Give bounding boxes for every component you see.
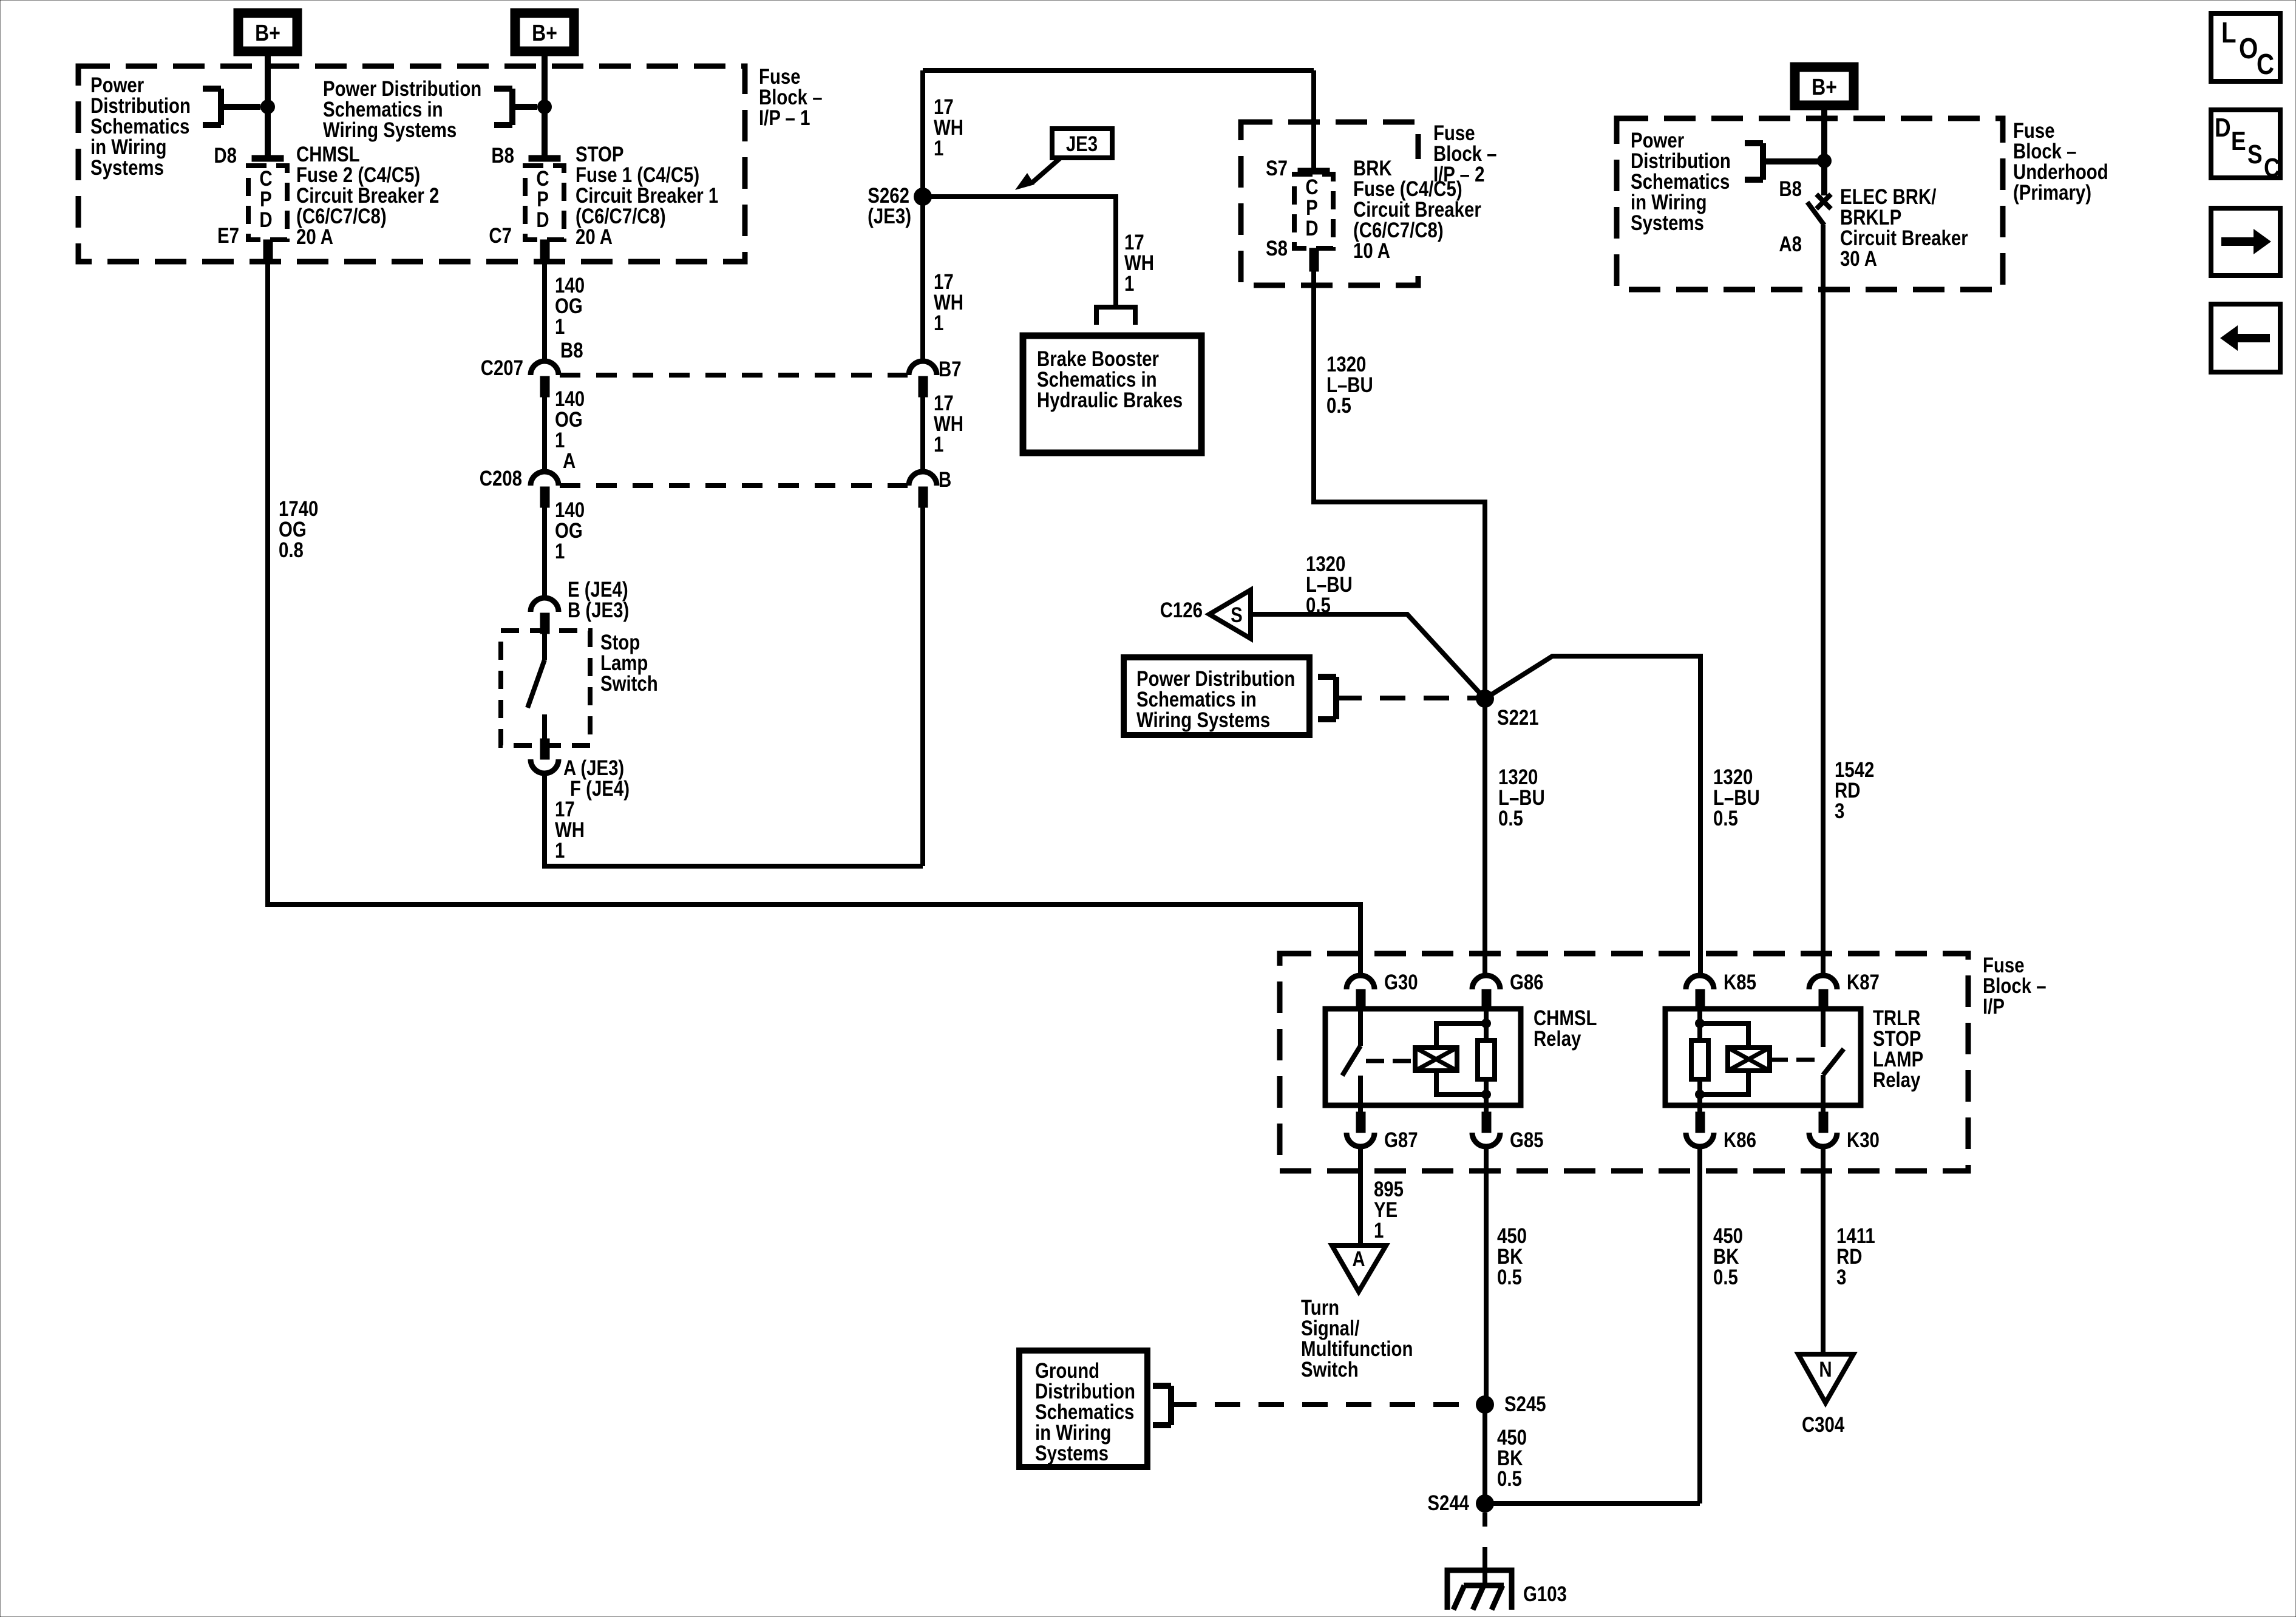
- relay CHMSL actuation dashes: [1366, 1059, 1415, 1063]
- svg-text:(JE3): (JE3): [868, 205, 911, 228]
- svg-text:B: B: [939, 468, 951, 492]
- svg-text:Relay: Relay: [1533, 1027, 1581, 1051]
- fuse block I/P-1 dashed box: [78, 66, 745, 262]
- connector G86 (arc and tick): [1472, 975, 1500, 989]
- relay TRLR coil junction dots: [1695, 1019, 1705, 1028]
- svg-text:D: D: [259, 208, 272, 232]
- junction dot B8 feed: [537, 100, 552, 114]
- svg-text:Systems: Systems: [1631, 211, 1704, 235]
- relay TRLR resistor: [1697, 1008, 1702, 1040]
- svg-text:1: 1: [934, 311, 943, 335]
- reference box Power Distribution Schematics in Wiring Systems (S221): [1124, 657, 1309, 735]
- callout box JE3: [1052, 129, 1112, 158]
- splice S221 dot: [1476, 690, 1494, 708]
- svg-text:S8: S8: [1266, 237, 1288, 260]
- svg-text:1: 1: [1374, 1219, 1384, 1242]
- svg-text:I/P – 1: I/P – 1: [759, 106, 810, 130]
- relay TRLR coil: [1728, 1048, 1770, 1071]
- fuse BRK CPD symbol: [1294, 174, 1333, 248]
- reference box Ground Distribution Schematics in Wiring Systems: [1019, 1351, 1147, 1467]
- svg-text:L: L: [2221, 17, 2237, 49]
- top horizontal wire S262 to BRK fuse: [923, 68, 1314, 73]
- junction dot underhood feed: [1817, 154, 1832, 168]
- wire 140 OG segment C208 to stop lamp switch: [542, 507, 547, 598]
- connector at stop lamp switch input: [531, 598, 559, 612]
- stop lamp switch contacts and blade: [542, 634, 547, 660]
- wire B+3 to ELEC BRK breaker: [1821, 109, 1827, 195]
- wire BRK fuse to S221: [1314, 271, 1485, 699]
- svg-text:S7: S7: [1266, 157, 1288, 180]
- relay CHMSL switch: [1358, 1008, 1363, 1046]
- wire B+2 down to fuse B8: [542, 56, 548, 158]
- off-page triangle N: [1798, 1354, 1853, 1403]
- svg-text:1: 1: [555, 540, 565, 563]
- svg-text:K87: K87: [1847, 971, 1880, 994]
- svg-text:10 A: 10 A: [1353, 239, 1390, 263]
- svg-text:B+: B+: [1812, 74, 1837, 100]
- svg-text:0.5: 0.5: [1306, 594, 1331, 617]
- svg-text:1: 1: [555, 315, 565, 339]
- svg-text:0.5: 0.5: [1713, 807, 1738, 830]
- bracket connector (underhood ref note): [1760, 143, 1766, 180]
- wire 140 OG segment C207 to C208: [542, 397, 547, 472]
- pin tick S7: [1298, 168, 1330, 174]
- svg-text:C207: C207: [481, 356, 523, 380]
- terminal tick S8: [1309, 248, 1319, 271]
- svg-text:B8: B8: [1779, 177, 1802, 201]
- svg-text:(Primary): (Primary): [2013, 181, 2091, 205]
- svg-text:Systems: Systems: [90, 156, 164, 180]
- connector G85 (tick and arc): [1482, 1112, 1491, 1133]
- splice S244 dot: [1476, 1494, 1494, 1513]
- svg-text:B+: B+: [255, 20, 280, 46]
- svg-text:A8: A8: [1779, 232, 1802, 256]
- svg-text:D: D: [2215, 112, 2231, 143]
- svg-text:C7: C7: [489, 224, 512, 248]
- wire B+1 down to fuse D8: [265, 56, 271, 158]
- relay CHMSL coil: [1415, 1048, 1457, 1071]
- svg-text:0.5: 0.5: [1498, 807, 1523, 830]
- connector G87 (tick and arc): [1356, 1112, 1365, 1133]
- relay TRLR switch: [1821, 1008, 1826, 1047]
- svg-text:K85: K85: [1724, 971, 1756, 994]
- bracket connector (CHMSL ref note): [218, 89, 224, 125]
- fuse block I/P dashed box (relays): [1280, 954, 1968, 1171]
- wire S245 to S244: [1483, 1405, 1487, 1503]
- svg-text:Switch: Switch: [1301, 1358, 1359, 1381]
- svg-text:Wiring Systems: Wiring Systems: [323, 118, 457, 142]
- splice S245 dot: [1476, 1395, 1494, 1414]
- svg-text:G87: G87: [1384, 1128, 1418, 1152]
- svg-text:D8: D8: [214, 144, 237, 168]
- fuse STOP CPD symbol: [525, 166, 564, 240]
- svg-text:20 A: 20 A: [576, 225, 613, 249]
- svg-text:C126: C126: [1160, 598, 1203, 622]
- terminal tick E7: [263, 240, 273, 263]
- svg-text:Relay: Relay: [1873, 1068, 1920, 1092]
- stop lamp switch dashed box: [501, 631, 590, 745]
- connector C126 triangle S: [1209, 590, 1251, 639]
- dashed pair line C208-B: [560, 483, 908, 488]
- svg-text:Hydraulic Brakes: Hydraulic Brakes: [1037, 388, 1183, 412]
- terminal tick C7: [540, 240, 549, 263]
- connector K87 (arc and tick): [1809, 975, 1837, 989]
- svg-text:S221: S221: [1497, 706, 1539, 730]
- reference box Brake Booster Schematics in Hydraulic Brakes: [1023, 336, 1201, 453]
- relay CHMSL resistor: [1484, 1008, 1489, 1040]
- connector C208 (arc and tick): [531, 472, 559, 486]
- svg-text:20 A: 20 A: [296, 225, 333, 249]
- svg-text:Wiring Systems: Wiring Systems: [1136, 708, 1270, 732]
- connector half-box to brake booster: [1096, 307, 1135, 325]
- relay CHMSL box: [1325, 1009, 1521, 1105]
- power symbol B+ feed 3 (underhood): [1790, 63, 1858, 110]
- svg-text:N: N: [1819, 1358, 1832, 1381]
- relay CHMSL coil junction dots: [1481, 1019, 1491, 1028]
- fuse block I/P-2 dashed box: [1241, 122, 1418, 285]
- svg-text:JE3: JE3: [1066, 132, 1098, 156]
- wire 17 WH from switch to S262 leg: [545, 773, 923, 866]
- connector K30 (tick and arc): [1819, 1112, 1828, 1133]
- white backing for BRK label: [1353, 159, 1425, 262]
- connector G30 (arc and tick): [1347, 975, 1374, 989]
- relay CHMSL coil links: [1436, 1023, 1486, 1048]
- svg-text:C: C: [2257, 49, 2274, 81]
- svg-text:0.5: 0.5: [1497, 1266, 1522, 1289]
- svg-text:1: 1: [934, 137, 943, 160]
- bracket connector (STOP ref note): [509, 89, 515, 125]
- wire G87 to turn signal switch: [1358, 1147, 1363, 1246]
- legend box arrow left: [2211, 304, 2280, 372]
- wire S221 down to CHMSL relay G86: [1483, 699, 1487, 975]
- svg-text:S244: S244: [1427, 1491, 1469, 1515]
- svg-text:G103: G103: [1523, 1582, 1567, 1606]
- svg-text:A: A: [1352, 1247, 1365, 1271]
- svg-text:G30: G30: [1384, 971, 1418, 994]
- svg-text:0.5: 0.5: [1326, 394, 1351, 418]
- svg-text:1: 1: [1124, 272, 1134, 296]
- svg-text:S: S: [2247, 139, 2263, 169]
- wire G85 to S245: [1484, 1147, 1489, 1405]
- svg-text:I/P: I/P: [1983, 995, 2005, 1019]
- breaker contact X mark: [1816, 194, 1831, 209]
- svg-text:E7: E7: [217, 224, 239, 248]
- wire K30 to trailer connector: [1821, 1147, 1826, 1354]
- legend box LOC: [2211, 13, 2280, 81]
- dashed pair line C207-B7: [560, 373, 908, 378]
- legend box DESC: [2211, 110, 2280, 178]
- svg-text:B+: B+: [532, 20, 557, 46]
- svg-text:30 A: 30 A: [1840, 247, 1877, 271]
- wire K86 to S244: [1697, 1147, 1702, 1503]
- arrow JE3 to S262 wire: [1032, 158, 1061, 183]
- fuse block underhood dashed box: [1617, 118, 2003, 290]
- connector C207 (arc and tick): [531, 361, 559, 375]
- pin tick D8: [252, 155, 284, 161]
- svg-text:B (JE3): B (JE3): [568, 598, 629, 622]
- wire ELEC BRK to K87: [1821, 225, 1826, 975]
- branch wire S262 to brake booster: [923, 197, 1116, 305]
- wire S262 segment B7 to B: [920, 397, 925, 472]
- svg-text:1: 1: [555, 839, 565, 863]
- svg-text:K30: K30: [1847, 1128, 1880, 1152]
- svg-text:C304: C304: [1802, 1413, 1844, 1437]
- svg-text:S: S: [1231, 603, 1243, 627]
- svg-text:E: E: [2231, 126, 2246, 156]
- splice S262 dot: [914, 188, 932, 206]
- wire CHMSL fuse E7 to relay G30: [268, 263, 1360, 975]
- relay TRLR coil links: [1700, 1023, 1748, 1048]
- svg-text:0.8: 0.8: [279, 538, 304, 562]
- svg-text:S245: S245: [1504, 1392, 1546, 1416]
- power symbol B+ feed 2 (STOP): [511, 8, 579, 56]
- svg-text:G86: G86: [1510, 971, 1544, 994]
- svg-text:B8: B8: [560, 339, 583, 362]
- wire S244 to ground G103: [1483, 1513, 1487, 1527]
- svg-text:Systems: Systems: [1035, 1442, 1109, 1465]
- wire S262 vertical: [920, 70, 925, 361]
- svg-text:1: 1: [934, 433, 943, 456]
- wire C126 to S221: [1251, 614, 1485, 699]
- bracket connector (ground ref): [1168, 1386, 1174, 1425]
- breaker blade: [1807, 202, 1824, 225]
- svg-text:G85: G85: [1510, 1128, 1544, 1152]
- relay TRLR actuation dashes: [1770, 1058, 1819, 1062]
- svg-text:C208: C208: [480, 467, 522, 490]
- svg-text:B7: B7: [939, 358, 962, 381]
- relay TRLR box: [1665, 1009, 1861, 1105]
- connector B7 (arc and tick): [909, 361, 937, 375]
- svg-text:A: A: [563, 449, 576, 473]
- junction dot D8 feed: [260, 100, 275, 114]
- svg-text:3: 3: [1836, 1266, 1846, 1289]
- svg-text:D: D: [1305, 217, 1318, 240]
- svg-text:F (JE4): F (JE4): [570, 777, 630, 801]
- wire 140 OG segment C7 to C207: [542, 263, 547, 361]
- ground symbol G103: [1447, 1570, 1512, 1610]
- power symbol B+ feed 1 (CHMSL): [234, 8, 302, 56]
- svg-text:B8: B8: [491, 144, 514, 168]
- wire S262 segment below B: [920, 507, 925, 866]
- wire top to BRK fuse S7: [1311, 70, 1316, 171]
- connector at stop lamp switch output: [540, 739, 549, 759]
- wire S221 to K85 column: [1485, 656, 1700, 975]
- svg-text:K86: K86: [1724, 1128, 1756, 1152]
- connector K85 (arc and tick): [1686, 975, 1714, 989]
- connector K86 (tick and arc): [1696, 1112, 1705, 1133]
- bracket connector (S221 ref): [1333, 677, 1339, 719]
- svg-text:C: C: [2264, 152, 2280, 183]
- svg-text:0.5: 0.5: [1497, 1467, 1522, 1491]
- connector B (arc and tick): [909, 472, 937, 486]
- legend box arrow right: [2211, 208, 2280, 276]
- svg-text:O: O: [2239, 33, 2258, 65]
- svg-text:D: D: [536, 208, 549, 232]
- svg-text:0.5: 0.5: [1713, 1266, 1738, 1289]
- off-page triangle A: [1332, 1246, 1386, 1292]
- wire S244 horizontal to K86 column: [1485, 1501, 1700, 1506]
- svg-text:3: 3: [1835, 799, 1844, 823]
- pin tick B8: [529, 155, 560, 161]
- svg-text:Switch: Switch: [600, 672, 658, 696]
- fuse CHMSL CPD symbol: [248, 166, 287, 240]
